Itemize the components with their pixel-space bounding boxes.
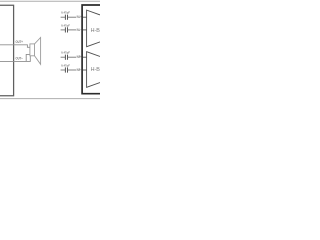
figure top border [0, 0, 100, 2]
capacitor C3 0.47uF [61, 51, 76, 60]
svg-text:0.47µF: 0.47µF [61, 23, 70, 27]
figure bottom border [0, 98, 100, 100]
svg-text:H-BRIDGE: H-BRIDGE [91, 28, 100, 34]
svg-text:0.47µF: 0.47µF [61, 64, 70, 68]
svg-text:OUT+: OUT+ [16, 39, 24, 44]
wire OUT- [0, 56, 30, 61]
wire OUT+ [0, 45, 30, 48]
svg-text:0.47µF: 0.47µF [61, 11, 70, 15]
svg-text:INR+: INR+ [77, 55, 82, 59]
background [0, 0, 100, 100]
wire input stub 3 [83, 56, 87, 58]
svg-text:H-BRIDGE: H-BRIDGE [91, 67, 100, 73]
svg-text:INL−: INL− [77, 28, 82, 32]
wire OUT- jog [26, 54, 30, 61]
capacitor C2 0.47uF [61, 23, 76, 32]
wire input stub 1 [83, 16, 87, 18]
svg-text:OUT−: OUT− [16, 55, 24, 60]
speaker SPK1 [30, 38, 41, 65]
svg-text:0.47µF: 0.47µF [61, 51, 70, 55]
capacitor C4 0.47uF [61, 64, 76, 73]
amplifier block H-BRIDGE 1 [87, 10, 100, 47]
capacitor C1 0.47uF [61, 11, 76, 20]
amplifier block H-BRIDGE 2 [87, 52, 100, 88]
IC box U1 (cropped at right edge) [82, 5, 100, 94]
svg-text:INR−: INR− [77, 68, 82, 72]
wire input stub 2 [83, 29, 87, 31]
svg-text:INL+: INL+ [77, 15, 82, 19]
left device box (cropped at left edge) [0, 5, 14, 96]
wire input stub 4 [83, 69, 87, 71]
